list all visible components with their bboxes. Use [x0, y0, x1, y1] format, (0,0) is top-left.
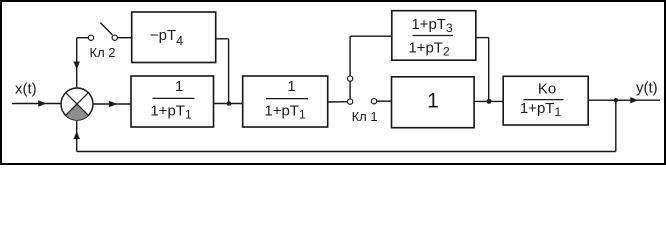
svg-text:y(t): y(t) [636, 79, 658, 96]
svg-text:1: 1 [175, 78, 183, 95]
svg-text:Кл 2: Кл 2 [90, 45, 116, 60]
svg-text:Кл 1: Кл 1 [352, 109, 378, 124]
svg-text:Ko: Ko [538, 81, 556, 98]
svg-text:1: 1 [427, 89, 439, 112]
svg-text:x(t): x(t) [15, 81, 37, 98]
svg-text:1: 1 [287, 78, 295, 95]
